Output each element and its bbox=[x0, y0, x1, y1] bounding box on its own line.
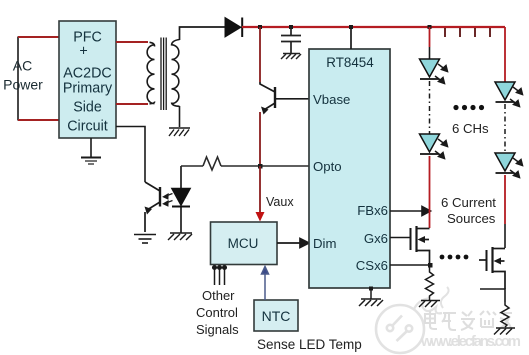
watermark logo elecfans bbox=[376, 287, 449, 353]
node Vaux junction bbox=[258, 164, 263, 169]
svg-text:FBx6: FBx6 bbox=[357, 203, 388, 218]
svg-text:Circuit: Circuit bbox=[67, 119, 108, 135]
dash-dot segment bbox=[504, 104, 506, 153]
wire Q1 emitter down bbox=[259, 112, 261, 166]
wire FBx6 with arrow bbox=[390, 207, 431, 216]
wire Gx6 to gate bbox=[390, 237, 410, 239]
wire transformer secondary bottom bbox=[179, 106, 181, 127]
AC source bracket bbox=[17, 37, 19, 121]
MCU block bbox=[211, 222, 278, 265]
wire Vaux to MCU bbox=[256, 166, 265, 222]
repetition dots current sources bbox=[440, 255, 469, 260]
wire PFC to transformer top bbox=[116, 41, 148, 43]
ground below LED bbox=[168, 233, 192, 240]
node junctions on bus bbox=[258, 25, 432, 29]
Other Control Signals label bbox=[196, 288, 239, 337]
svg-text:Vaux: Vaux bbox=[266, 195, 294, 209]
MOSFET M6 bbox=[479, 247, 505, 289]
svg-text:Control: Control bbox=[196, 305, 238, 320]
transformer T1 bbox=[147, 38, 179, 111]
svg-text:MCU: MCU bbox=[228, 236, 259, 251]
ground below R2 bbox=[419, 301, 440, 308]
wire CSx6 to source bbox=[390, 264, 430, 266]
diode D1 bbox=[225, 18, 242, 38]
wire bus to Q1 collector bbox=[259, 27, 261, 82]
repetition dots LED strings bbox=[453, 105, 484, 110]
transistor Q1 bbox=[260, 82, 309, 115]
optocoupler U2 phototransistor bbox=[145, 182, 161, 232]
ground below capacitor bbox=[281, 54, 301, 60]
optocoupler light arrows bbox=[164, 194, 173, 206]
svg-text:AC2DC: AC2DC bbox=[63, 66, 111, 82]
resistor R1 bbox=[203, 157, 221, 170]
wire PFC to transformer bottom bbox=[116, 103, 148, 105]
LED D2 bbox=[420, 59, 440, 77]
svg-text:Other: Other bbox=[202, 288, 235, 303]
wire opto line right to RT8454 bbox=[221, 165, 309, 167]
NTC block bbox=[254, 300, 298, 331]
svg-text:CSx6: CSx6 bbox=[356, 258, 388, 273]
MCU control pins bbox=[213, 266, 227, 285]
6 Current Sources label bbox=[441, 195, 496, 226]
dash-dot segment bbox=[429, 81, 431, 134]
svg-text:Dim: Dim bbox=[313, 236, 336, 251]
svg-text:Sources: Sources bbox=[447, 211, 496, 226]
svg-text:Sense LED Temp: Sense LED Temp bbox=[257, 337, 362, 352]
ticks on bus for channels bbox=[445, 28, 490, 37]
AC Power label bbox=[3, 58, 43, 93]
ground below PFC bbox=[81, 138, 101, 164]
resistor R2 bbox=[426, 265, 434, 300]
svg-text:+: + bbox=[79, 44, 87, 60]
wire source stub M6 bbox=[480, 289, 505, 302]
wire MCU Dim arrow bbox=[277, 239, 309, 248]
svg-text:NTC: NTC bbox=[262, 308, 291, 324]
wire bus to RT8454 top bbox=[350, 27, 352, 49]
svg-text:Vbase: Vbase bbox=[313, 92, 350, 107]
RT8454 block bbox=[309, 49, 390, 288]
svg-text:AC: AC bbox=[13, 58, 32, 74]
svg-text:Gx6: Gx6 bbox=[364, 231, 388, 246]
svg-text:6 CHs: 6 CHs bbox=[452, 121, 489, 136]
watermark chinese glyphs bbox=[425, 310, 512, 330]
wire opto line left bbox=[181, 165, 203, 167]
MOSFET M1 bbox=[411, 226, 430, 265]
resistor R7 bbox=[501, 302, 509, 327]
ground below transformer bbox=[169, 128, 190, 136]
svg-text:Signals: Signals bbox=[196, 322, 239, 337]
wire PFC to optocoupler bbox=[116, 127, 145, 183]
svg-text:Power: Power bbox=[3, 77, 43, 93]
svg-text:6 Current: 6 Current bbox=[441, 195, 496, 210]
LED string channel 6 bbox=[495, 27, 523, 248]
wire transformer secondary top to diode bbox=[180, 27, 226, 40]
LED D3 bbox=[420, 134, 440, 152]
svg-text:www.elecfans.com: www.elecfans.com bbox=[420, 333, 521, 350]
wire top red bus bbox=[242, 26, 505, 28]
PFC + AC2DC primary side circuit block bbox=[59, 21, 116, 138]
wire NTC to MCU bbox=[262, 267, 269, 301]
svg-text:Side: Side bbox=[73, 100, 102, 116]
node CSx6 junction bbox=[428, 263, 433, 268]
ground below phototransistor bbox=[134, 235, 156, 244]
ground below RT8454 bbox=[359, 287, 383, 307]
capacitor C1 bbox=[281, 27, 301, 54]
wire AC top bbox=[18, 36, 59, 38]
LED D5 bbox=[495, 153, 515, 171]
svg-text:Opto: Opto bbox=[313, 159, 342, 174]
wire AC bottom bbox=[18, 119, 59, 121]
svg-text:Primary: Primary bbox=[63, 81, 113, 97]
LED string channel 1 bbox=[420, 27, 448, 228]
svg-text:RT8454: RT8454 bbox=[326, 55, 374, 70]
optocoupler LED bbox=[172, 166, 190, 233]
ground below R7 bbox=[494, 328, 515, 335]
LED D4 bbox=[495, 82, 515, 100]
